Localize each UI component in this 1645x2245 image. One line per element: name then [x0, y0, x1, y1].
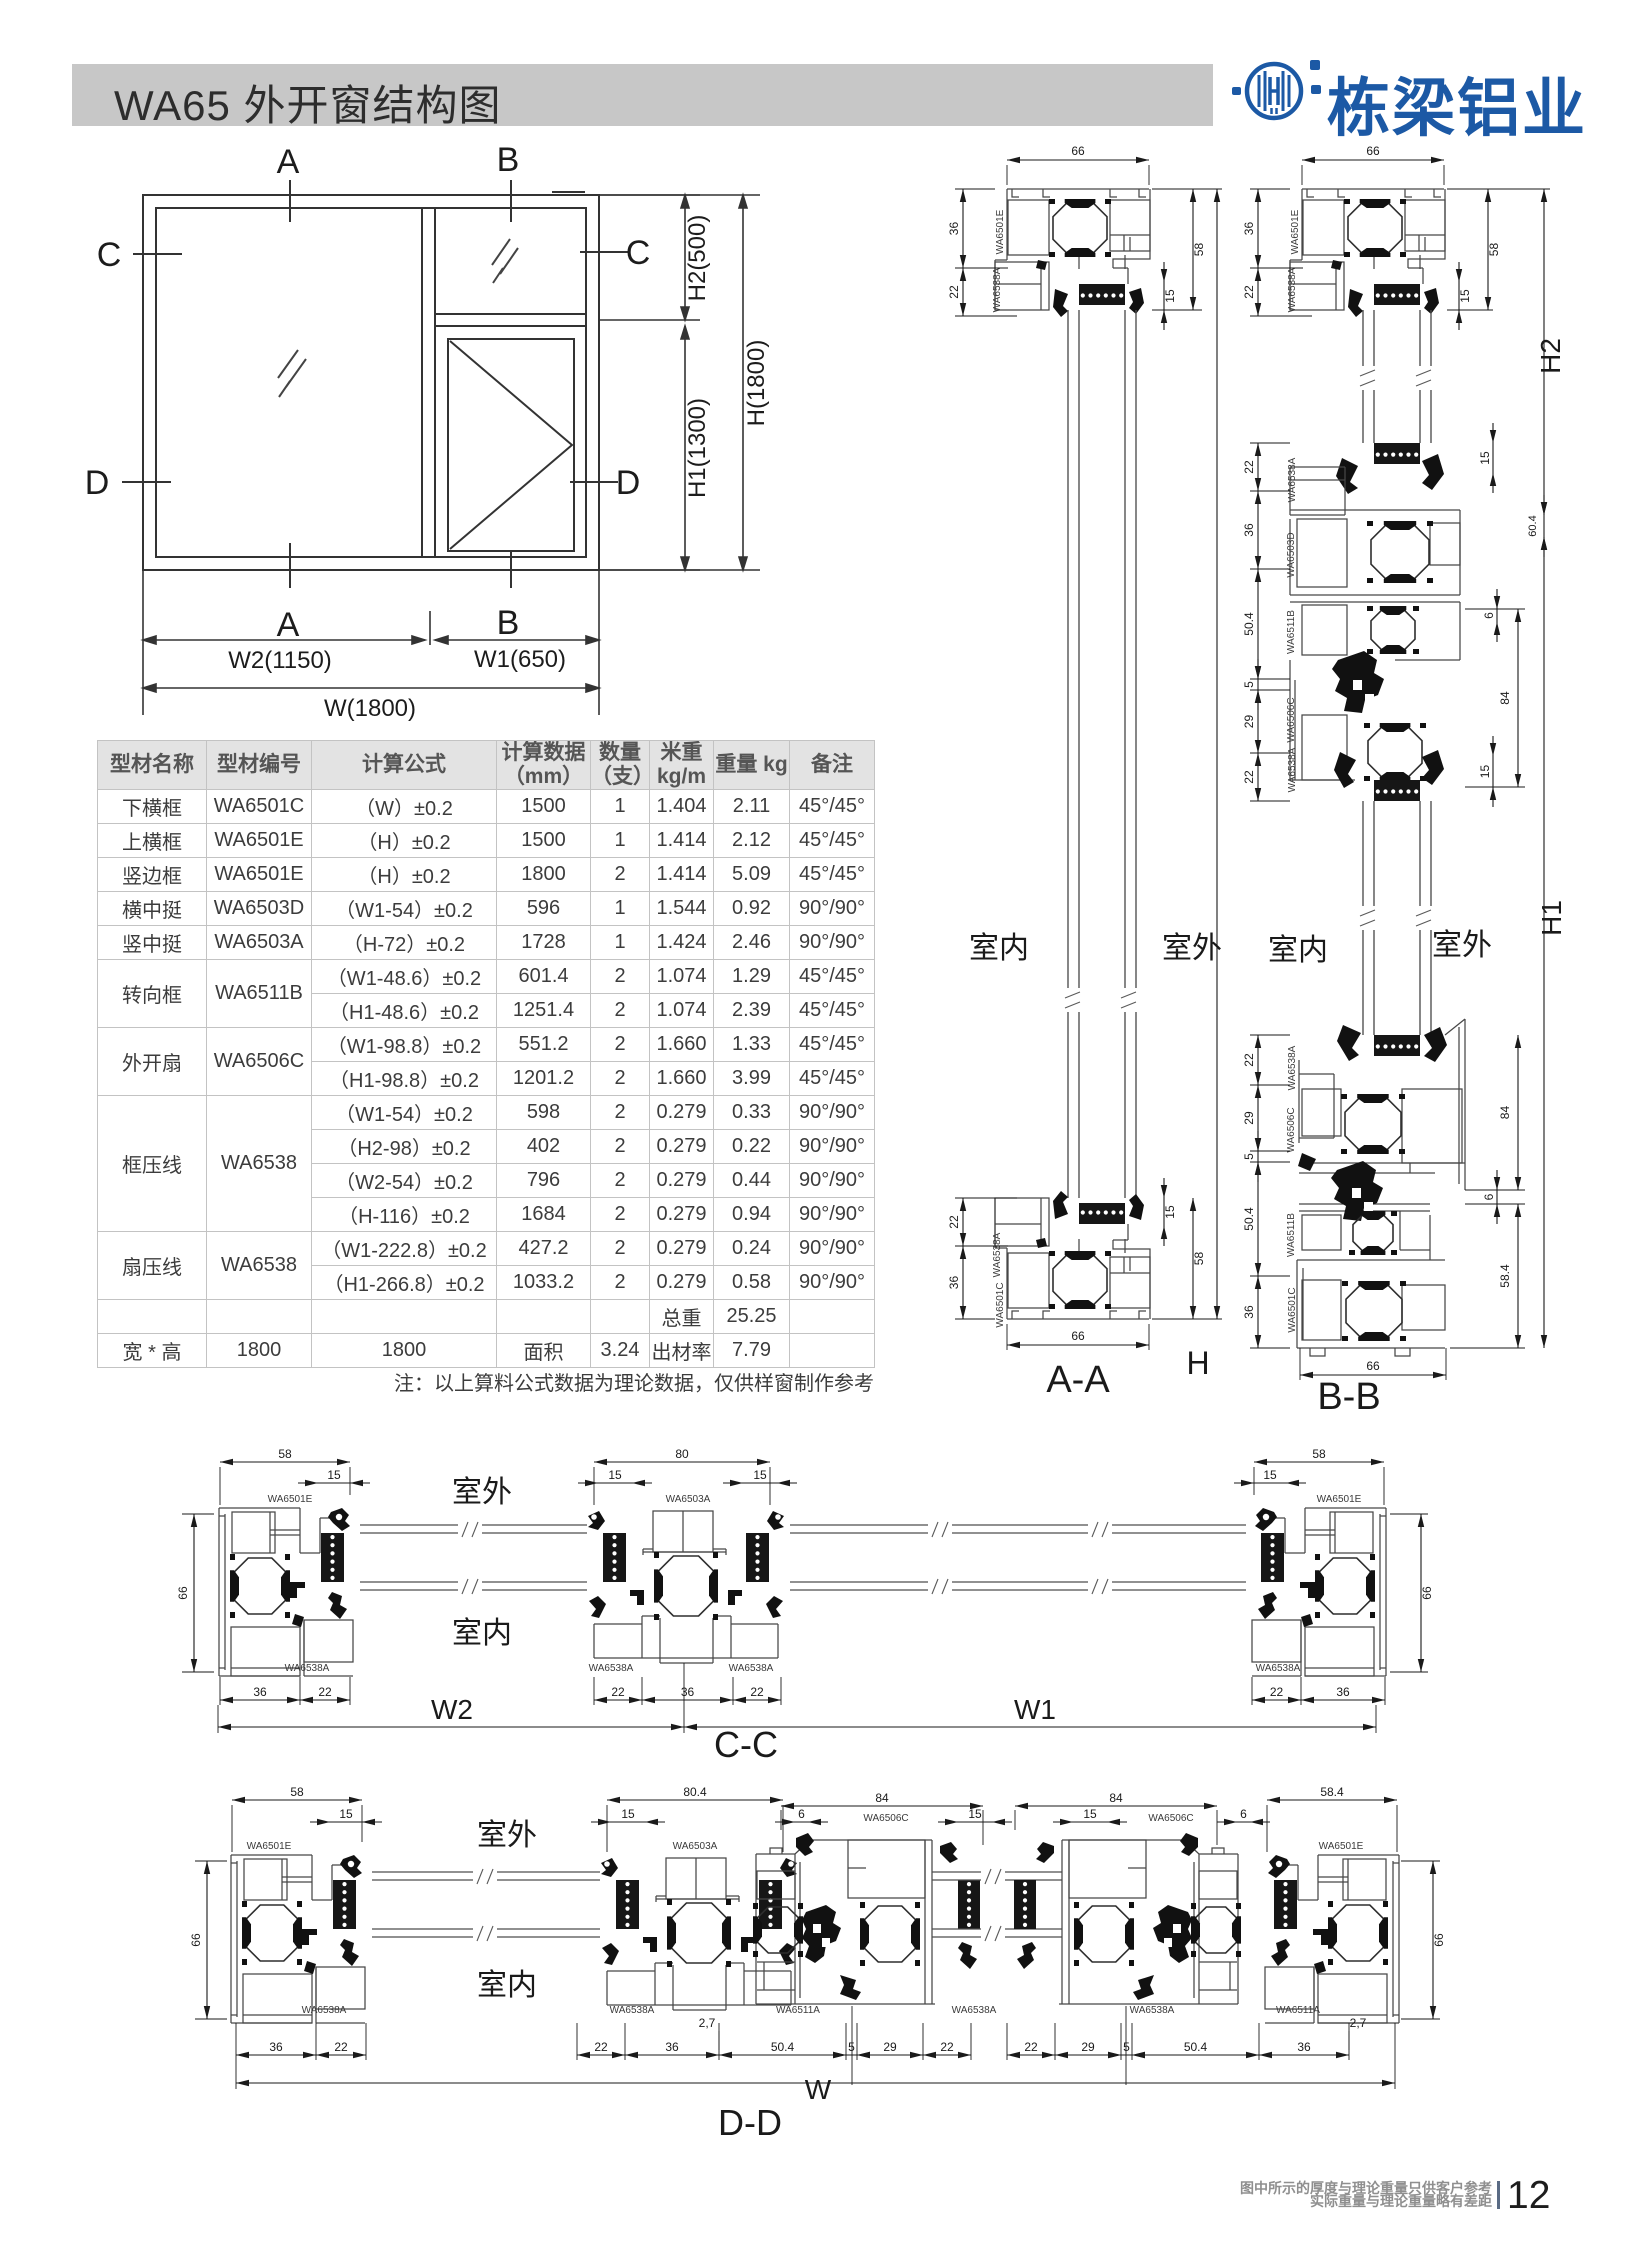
svg-text:WA6538A: WA6538A [1287, 747, 1298, 792]
svg-text:D-D: D-D [718, 2102, 782, 2143]
dimension lines bottom [143, 570, 599, 715]
svg-text:15: 15 [327, 1468, 341, 1482]
svg-text:室内: 室内 [969, 932, 1029, 965]
B-B middle cluster: 框压线/横中挺 WA6503D/转向框 WA6511B/外开扇 WA6506C [1290, 443, 1460, 801]
svg-text:6: 6 [1482, 612, 1496, 619]
svg-text:C: C [626, 234, 651, 272]
window outer frame [143, 195, 599, 570]
A-A bottom right dim 15 [1163, 1178, 1165, 1246]
svg-text:WA6501C: WA6501C [995, 1282, 1006, 1327]
mullion vertical [421, 208, 423, 557]
placeholder for sections [900, 140, 1645, 1420]
svg-text:36: 36 [269, 2040, 283, 2054]
casement sash rect [448, 339, 574, 551]
svg-text:H: H [1186, 1345, 1209, 1381]
svg-text:室内: 室内 [452, 1617, 512, 1650]
svg-text:WA6538A: WA6538A [952, 2005, 997, 2016]
svg-text:36: 36 [681, 1685, 695, 1699]
svg-text:WA6503A: WA6503A [673, 1841, 718, 1852]
C-C top dim 58 right [1253, 1467, 1255, 1495]
C-C top dim 15 right [1234, 1482, 1306, 1484]
svg-text:6: 6 [1482, 1193, 1496, 1200]
B-B bottom cluster: 外开扇 WA6506C/转向框 WA6511B/下横框 WA6501C [1297, 1019, 1465, 1356]
svg-text:50.4: 50.4 [1242, 612, 1256, 636]
svg-text:WA6501E: WA6501E [247, 1841, 292, 1852]
A-A overall dim H [1152, 188, 1222, 190]
svg-text:22: 22 [1242, 770, 1256, 784]
svg-text:6: 6 [1240, 1807, 1247, 1821]
C-C mullion dim 15 left [578, 1482, 652, 1484]
svg-text:室外: 室外 [452, 1476, 512, 1509]
svg-text:WA6503D: WA6503D [1286, 532, 1297, 577]
svg-text:66: 66 [1366, 144, 1380, 158]
svg-text:58.4: 58.4 [1320, 1785, 1344, 1799]
svg-text:22: 22 [594, 2040, 608, 2054]
svg-text:22: 22 [947, 285, 961, 299]
B-B middle cluster right dims [1492, 423, 1494, 493]
svg-text:WA6511A: WA6511A [776, 2005, 820, 2016]
svg-text:36: 36 [947, 222, 961, 236]
C-C bottom dims mullion 22/36/22 [593, 1677, 595, 1705]
D-D dim 15 sash2 [1053, 1821, 1127, 1823]
svg-text:66: 66 [1432, 1933, 1446, 1947]
svg-text:84: 84 [875, 1791, 889, 1805]
C-C side dim 66 left [182, 1513, 214, 1515]
glass symbol small pane [492, 239, 518, 283]
C-C side dim 66 right [1390, 1513, 1428, 1515]
C-C glass run 2 [790, 1525, 1246, 1590]
svg-text:C: C [97, 236, 122, 274]
A-A insulated glass unit [1068, 310, 1136, 1198]
C-C dim W1 [684, 1726, 1376, 1728]
D-D dim 6 first [775, 1821, 828, 1823]
C-C top dim 58 left [219, 1467, 221, 1505]
footer note [1135, 2182, 1492, 2208]
D-D top dim 15 left [310, 1821, 382, 1823]
C-C mullion dim 80 [593, 1467, 595, 1505]
svg-text:WA6538A: WA6538A [1130, 2005, 1175, 2016]
svg-text:66: 66 [1366, 1359, 1380, 1373]
title bar [72, 64, 1213, 126]
D-D bottom dims group 3 [1006, 2023, 1008, 2060]
svg-text:22: 22 [947, 1215, 961, 1229]
svg-text:WA6538A: WA6538A [1287, 1045, 1298, 1090]
page number [1507, 2174, 1550, 2218]
svg-text:B: B [497, 604, 520, 642]
svg-text:22: 22 [750, 1685, 764, 1699]
svg-text:A-A: A-A [1046, 1359, 1110, 1401]
sash opening triangle [450, 341, 572, 549]
section B-B top frame profile WA6501E [1290, 189, 1445, 317]
svg-text:W1: W1 [1014, 1694, 1056, 1725]
C-C right frame profile WA6501E [1252, 1508, 1386, 1676]
svg-text:WA6501E: WA6501E [1290, 209, 1301, 254]
D-D side dim 66 right [1401, 1860, 1440, 1862]
svg-text:15: 15 [1163, 289, 1177, 303]
C-C top dim 15 left [298, 1482, 370, 1484]
D-D dim 84 first [780, 1810, 782, 1830]
B-B upper glass [1363, 310, 1431, 443]
B-B left dim 22 [1257, 268, 1259, 316]
svg-text:29: 29 [1242, 715, 1256, 729]
svg-text:22: 22 [1270, 1685, 1284, 1699]
svg-text:66: 66 [1071, 144, 1085, 158]
C-C glass run 1 [360, 1525, 587, 1590]
svg-text:6: 6 [798, 1807, 805, 1821]
A-A bottom right dim 58 [1152, 1318, 1202, 1320]
window elevation drawing [80, 140, 800, 740]
svg-text:WA6538A: WA6538A [992, 267, 1003, 312]
D-D dim 80.4 [606, 1805, 608, 1852]
svg-text:15: 15 [339, 1807, 353, 1821]
svg-text:WA6506C: WA6506C [863, 1813, 908, 1824]
D-D dim 15 sash1 [938, 1821, 1012, 1823]
D-D dim 6 second [1217, 1821, 1270, 1823]
C-C mullion dim 15 right [723, 1482, 797, 1484]
svg-text:50.4: 50.4 [1242, 1207, 1256, 1231]
svg-text:66: 66 [176, 1586, 190, 1600]
svg-text:WA6511B: WA6511B [1286, 1213, 1297, 1257]
D-D dim 58.4 [1266, 1805, 1268, 1852]
svg-text:WA6538A: WA6538A [992, 1232, 1003, 1277]
svg-text:36: 36 [253, 1685, 267, 1699]
B-B overall dim H2 [1447, 188, 1550, 190]
svg-text:WA6538A: WA6538A [729, 1663, 774, 1674]
svg-text:5: 5 [1242, 1153, 1256, 1160]
C-C bottom dims right 22/36 [1251, 1677, 1253, 1705]
D-D top dim 58 [231, 1805, 233, 1852]
svg-text:15: 15 [1163, 1205, 1177, 1219]
svg-text:2,7: 2,7 [699, 2016, 716, 2030]
D-D side dim 66 left [195, 1860, 227, 1862]
svg-text:15: 15 [1478, 451, 1492, 465]
svg-text:36: 36 [1242, 1305, 1256, 1319]
svg-text:15: 15 [608, 1468, 622, 1482]
footer divider [1497, 2181, 1500, 2209]
svg-text:WA6501E: WA6501E [1317, 1494, 1362, 1505]
svg-text:室外: 室外 [1432, 929, 1492, 962]
svg-text:22: 22 [318, 1685, 332, 1699]
D-D left frame profile WA6501E [231, 1855, 365, 2023]
company logo [1228, 52, 1328, 132]
profile cut-list table [97, 740, 875, 1368]
svg-text:58: 58 [1192, 1252, 1206, 1266]
svg-text:36: 36 [1242, 222, 1256, 236]
svg-text:D: D [85, 464, 110, 502]
svg-text:B: B [497, 141, 520, 179]
transom horizontal [435, 313, 586, 315]
svg-text:22: 22 [940, 2040, 954, 2054]
svg-text:66: 66 [1071, 1329, 1085, 1343]
svg-text:H1(1300): H1(1300) [684, 398, 711, 498]
svg-text:WA6511B: WA6511B [1286, 610, 1297, 654]
svg-text:22: 22 [611, 1685, 625, 1699]
D-D sash cluster 1 WA6506C (外开扇) [753, 1833, 980, 2004]
svg-text:A: A [277, 606, 300, 644]
B-B bottom dim 66 [1299, 1354, 1301, 1380]
D-D glass run 1 [372, 1872, 600, 1937]
svg-text:15: 15 [968, 1807, 982, 1821]
svg-text:36: 36 [947, 1276, 961, 1290]
A-A bottom left dim 36 [962, 1246, 964, 1319]
svg-text:W(1800): W(1800) [324, 695, 416, 722]
svg-text:WA6506C: WA6506C [1286, 1107, 1297, 1152]
svg-text:WA6538A: WA6538A [1287, 457, 1298, 502]
svg-text:22: 22 [1242, 460, 1256, 474]
svg-text:80.4: 80.4 [683, 1785, 707, 1799]
svg-text:WA6538A: WA6538A [302, 2005, 347, 2016]
svg-text:15: 15 [1263, 1468, 1277, 1482]
svg-text:H(1800): H(1800) [743, 340, 770, 427]
B-B overall dim H1 [1543, 537, 1545, 1348]
svg-text:WA6538A: WA6538A [1256, 1663, 1301, 1674]
svg-text:80: 80 [675, 1447, 689, 1461]
section labels and ticks [122, 180, 628, 588]
svg-text:22: 22 [1242, 1053, 1256, 1067]
C-C mullion WA6503A (竖中挺) [588, 1511, 784, 1663]
svg-text:29: 29 [1081, 2040, 1095, 2054]
svg-text:58: 58 [290, 1785, 304, 1799]
svg-text:66: 66 [189, 1933, 203, 1947]
window inner frame line [156, 208, 586, 557]
svg-text:58: 58 [1192, 243, 1206, 257]
svg-text:WA6538A: WA6538A [610, 2005, 655, 2016]
svg-text:D: D [616, 464, 641, 502]
D-D dim 15 mullion [591, 1821, 665, 1823]
svg-text:29: 29 [883, 2040, 897, 2054]
B-B left dim 36 [1250, 188, 1290, 190]
A-A right dim 58 [1152, 188, 1202, 190]
D-D dim W [235, 2060, 237, 2089]
svg-text:58: 58 [1312, 1447, 1326, 1461]
C-C left frame profile WA6501E (竖边框) [219, 1508, 353, 1676]
section A-A bottom frame profile WA6501C (下横框) [995, 1191, 1150, 1319]
B-B dim 60.4 [1543, 495, 1545, 557]
D-D bottom dims group 1 [235, 2023, 237, 2060]
svg-text:5: 5 [1123, 2040, 1130, 2054]
svg-text:36: 36 [1336, 1685, 1350, 1699]
svg-text:22: 22 [1024, 2040, 1038, 2054]
D-D sash cluster 2 WA6506C (mirrored) [1014, 1833, 1241, 2004]
svg-text:WA6511A: WA6511A [1276, 2005, 1320, 2016]
svg-text:15: 15 [753, 1468, 767, 1482]
svg-text:2,7: 2,7 [1350, 2016, 1367, 2030]
svg-text:84: 84 [1109, 1791, 1123, 1805]
B-B bottom cluster right dims [1517, 1035, 1519, 1190]
svg-text:H2(500): H2(500) [684, 215, 711, 302]
svg-text:5: 5 [1242, 681, 1256, 688]
C-C dim W2 [217, 1705, 219, 1733]
B-B right dim 15 [1458, 262, 1460, 330]
section A-A top dim 66 [1006, 165, 1008, 185]
dimension lines right [599, 195, 760, 570]
svg-text:66: 66 [1420, 1586, 1434, 1600]
svg-text:C-C: C-C [714, 1724, 778, 1765]
section A-A top frame profile WA6501E (上横框) [995, 189, 1150, 317]
svg-text:W: W [805, 2074, 832, 2105]
svg-text:A: A [277, 143, 300, 181]
A-A left dim 36 [955, 188, 995, 190]
svg-text:58.4: 58.4 [1498, 1264, 1512, 1288]
section B-B top dim 66 [1301, 165, 1303, 185]
svg-text:WA6503A: WA6503A [666, 1494, 711, 1505]
svg-text:W2(1150): W2(1150) [228, 647, 332, 674]
svg-text:22: 22 [334, 2040, 348, 2054]
A-A right dim 15 [1163, 262, 1165, 330]
C-C bottom dims left 36/22 [219, 1677, 221, 1705]
svg-text:WA6501E: WA6501E [995, 209, 1006, 254]
svg-text:WA6538A: WA6538A [285, 1663, 330, 1674]
svg-text:15: 15 [1083, 1807, 1097, 1821]
B-B middle cluster left dims [1257, 443, 1259, 491]
svg-text:84: 84 [1498, 1106, 1512, 1120]
B-B bottom cluster left dims [1257, 1035, 1259, 1085]
A-A bottom dim 66 [1006, 1324, 1008, 1350]
svg-text:22: 22 [1242, 285, 1256, 299]
svg-text:WA6506C: WA6506C [1286, 697, 1297, 742]
A-A left dim 22 [962, 268, 964, 316]
svg-text:29: 29 [1242, 1111, 1256, 1125]
glass symbol big pane [278, 239, 518, 397]
svg-text:W2: W2 [431, 1694, 473, 1725]
svg-text:H1: H1 [1536, 900, 1567, 936]
svg-text:50.4: 50.4 [771, 2040, 795, 2054]
B-B lower glass [1363, 801, 1431, 1035]
D-D mullion WA6503A [601, 1858, 797, 2010]
svg-text:15: 15 [1458, 289, 1472, 303]
D-D bottom dims group 2 [576, 2023, 578, 2060]
svg-text:WA6501E: WA6501E [268, 1494, 313, 1505]
svg-text:H2: H2 [1535, 338, 1566, 374]
svg-text:室内: 室内 [477, 1969, 537, 2002]
svg-text:58: 58 [278, 1447, 292, 1461]
svg-text:室内: 室内 [1268, 934, 1328, 967]
svg-text:60.4: 60.4 [1527, 515, 1539, 536]
D-D right frame profile WA6501E [1265, 1855, 1399, 2023]
svg-text:58: 58 [1487, 243, 1501, 257]
svg-text:WA6538A: WA6538A [1287, 267, 1298, 312]
svg-text:W1(650): W1(650) [474, 646, 566, 673]
svg-text:15: 15 [1478, 765, 1492, 779]
svg-text:WA6538A: WA6538A [589, 1663, 634, 1674]
svg-text:50.4: 50.4 [1184, 2040, 1208, 2054]
svg-text:36: 36 [1242, 523, 1256, 537]
svg-text:WA6506C: WA6506C [1148, 1813, 1193, 1824]
svg-text:室外: 室外 [1162, 932, 1222, 965]
svg-text:WA6501C: WA6501C [1287, 1287, 1298, 1332]
svg-text:15: 15 [621, 1807, 635, 1821]
D-D dim 84 second [1014, 1810, 1016, 1830]
B-B right dim 58 [1447, 188, 1493, 190]
D-D short glass between sashes [932, 1872, 1062, 1937]
A-A bottom left dim 22 [955, 1197, 1017, 1199]
svg-text:84: 84 [1498, 691, 1512, 705]
svg-text:36: 36 [665, 2040, 679, 2054]
svg-text:36: 36 [1297, 2040, 1311, 2054]
svg-text:室外: 室外 [477, 1819, 537, 1852]
svg-text:WA6501E: WA6501E [1319, 1841, 1364, 1852]
